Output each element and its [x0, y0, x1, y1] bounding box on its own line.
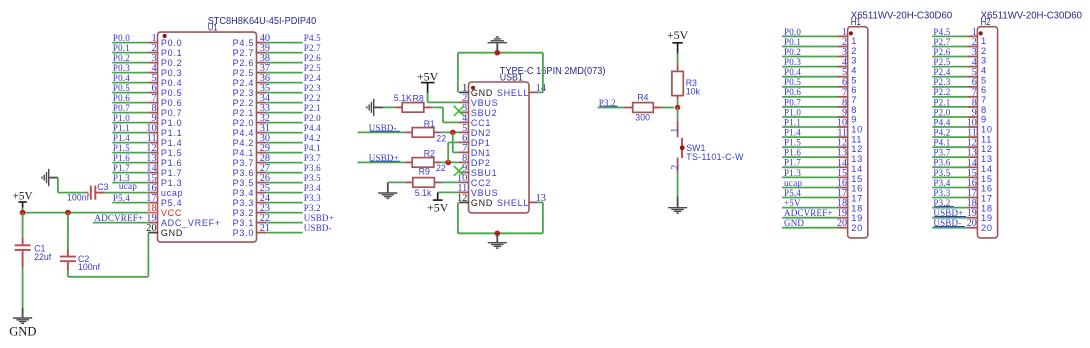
svg-text:DN2: DN2 — [471, 128, 491, 138]
svg-text:P0.5: P0.5 — [161, 88, 183, 98]
svg-text:P2.0: P2.0 — [933, 107, 950, 117]
svg-text:P0.7: P0.7 — [113, 103, 130, 113]
svg-text:P3.4: P3.4 — [933, 178, 950, 188]
svg-text:SBU1: SBU1 — [471, 168, 498, 178]
svg-text:GND: GND — [9, 325, 36, 339]
svg-text:VCC: VCC — [161, 208, 182, 218]
svg-text:ucap: ucap — [784, 178, 802, 188]
svg-text:17: 17 — [851, 193, 863, 203]
svg-text:P0.1: P0.1 — [161, 48, 183, 58]
svg-text:P2.3: P2.3 — [933, 77, 950, 87]
svg-text:P1.5: P1.5 — [113, 143, 130, 153]
svg-text:14: 14 — [981, 164, 993, 174]
svg-text:P0.5: P0.5 — [113, 83, 130, 93]
svg-text:X6511WV-20H-C30D60: X6511WV-20H-C30D60 — [981, 11, 1083, 22]
svg-text:P3.3: P3.3 — [233, 198, 255, 208]
svg-text:P1.5: P1.5 — [784, 138, 801, 148]
svg-text:2: 2 — [851, 46, 857, 56]
svg-text:R4: R4 — [637, 93, 648, 103]
svg-text:12: 12 — [457, 193, 467, 204]
svg-text:P2.1: P2.1 — [304, 103, 321, 113]
svg-text:ucap: ucap — [119, 181, 137, 191]
svg-text:P0.7: P0.7 — [161, 108, 183, 118]
svg-text:3: 3 — [981, 56, 987, 66]
svg-text:P1.4: P1.4 — [161, 138, 183, 148]
svg-text:R1: R1 — [424, 119, 435, 129]
svg-text:9: 9 — [851, 115, 857, 125]
svg-text:P1.3: P1.3 — [161, 178, 183, 188]
svg-text:GND: GND — [161, 228, 183, 238]
svg-text:GND: GND — [471, 88, 493, 98]
svg-text:P0.3: P0.3 — [113, 63, 130, 73]
svg-text:6: 6 — [981, 85, 987, 95]
svg-text:DP2: DP2 — [471, 158, 491, 168]
svg-text:P1.6: P1.6 — [113, 153, 130, 163]
svg-text:ADCVREF+: ADCVREF+ — [95, 213, 144, 223]
svg-text:12: 12 — [851, 144, 863, 154]
svg-text:GND: GND — [784, 218, 804, 228]
svg-text:SHELL: SHELL — [497, 88, 529, 98]
svg-text:USBD+: USBD+ — [304, 213, 334, 223]
svg-text:P1.0: P1.0 — [113, 113, 130, 123]
svg-text:ADCVREF+: ADCVREF+ — [784, 208, 833, 218]
svg-text:16: 16 — [981, 184, 993, 194]
svg-text:DN1: DN1 — [471, 148, 491, 158]
svg-text:P2.6: P2.6 — [933, 47, 950, 57]
svg-text:P1.6: P1.6 — [784, 148, 801, 158]
svg-text:P2.0: P2.0 — [304, 113, 321, 123]
svg-text:4: 4 — [851, 66, 857, 76]
svg-text:P0.6: P0.6 — [161, 98, 183, 108]
svg-text:P4.1: P4.1 — [933, 138, 950, 148]
svg-text:19: 19 — [981, 213, 993, 223]
svg-text:CC1: CC1 — [471, 118, 491, 128]
svg-text:100nf: 100nf — [78, 262, 101, 272]
svg-text:P0.5: P0.5 — [784, 77, 801, 87]
svg-text:P3.1: P3.1 — [233, 218, 255, 228]
svg-text:P0.3: P0.3 — [784, 57, 801, 67]
svg-text:20: 20 — [146, 223, 156, 234]
svg-text:22: 22 — [436, 163, 446, 173]
svg-text:P5.4: P5.4 — [784, 188, 801, 198]
svg-text:R2: R2 — [424, 148, 435, 158]
svg-text:P3.6: P3.6 — [933, 158, 950, 168]
svg-text:5: 5 — [851, 75, 857, 85]
svg-text:P1.4: P1.4 — [113, 133, 130, 143]
svg-text:16: 16 — [851, 184, 863, 194]
svg-text:P1.7: P1.7 — [161, 168, 183, 178]
svg-text:P2.2: P2.2 — [304, 93, 321, 103]
svg-text:P2.5: P2.5 — [233, 68, 255, 78]
svg-text:P2.5: P2.5 — [933, 57, 950, 67]
svg-text:P3.2: P3.2 — [304, 203, 321, 213]
svg-text:14: 14 — [851, 164, 863, 174]
svg-text:P2.1: P2.1 — [233, 108, 255, 118]
svg-text:GND: GND — [471, 198, 493, 208]
svg-text:P2.7: P2.7 — [933, 37, 950, 47]
svg-text:P0.4: P0.4 — [784, 67, 801, 77]
svg-text:P4.1: P4.1 — [233, 148, 255, 158]
svg-text:P2.6: P2.6 — [304, 53, 321, 63]
svg-text:+5V: +5V — [427, 200, 449, 214]
svg-text:P3.0: P3.0 — [233, 228, 255, 238]
svg-text:P4.4: P4.4 — [233, 128, 255, 138]
svg-text:H2: H2 — [981, 17, 991, 28]
svg-text:P3.7: P3.7 — [933, 148, 950, 158]
svg-text:VBUS: VBUS — [471, 98, 499, 108]
svg-text:P0.1: P0.1 — [784, 37, 801, 47]
svg-text:P3.5: P3.5 — [933, 168, 950, 178]
svg-text:10: 10 — [981, 125, 993, 135]
svg-text:8: 8 — [981, 105, 987, 115]
svg-text:17: 17 — [981, 193, 993, 203]
svg-text:6: 6 — [851, 85, 857, 95]
svg-text:10k: 10k — [686, 86, 701, 96]
svg-text:P1.6: P1.6 — [161, 158, 183, 168]
svg-text:P4.5: P4.5 — [933, 27, 950, 37]
svg-text:P2.2: P2.2 — [233, 98, 255, 108]
svg-text:22: 22 — [436, 133, 446, 143]
svg-text:1: 1 — [851, 36, 857, 46]
svg-text:U1: U1 — [208, 23, 218, 34]
svg-text:+5V: +5V — [784, 198, 801, 208]
svg-text:P0.2: P0.2 — [161, 58, 183, 68]
svg-text:P2.7: P2.7 — [304, 43, 321, 53]
svg-text:8: 8 — [851, 105, 857, 115]
svg-text:+5V: +5V — [13, 191, 33, 203]
svg-text:P4.5: P4.5 — [304, 33, 321, 43]
svg-text:P1.5: P1.5 — [161, 148, 183, 158]
svg-text:X6511WV-20H-C30D60: X6511WV-20H-C30D60 — [851, 11, 953, 22]
svg-text:11: 11 — [851, 134, 862, 144]
svg-text:P5.4: P5.4 — [161, 198, 183, 208]
svg-text:300: 300 — [635, 112, 650, 122]
svg-text:P2.1: P2.1 — [933, 97, 950, 107]
svg-text:P1.1: P1.1 — [784, 117, 801, 127]
svg-text:P0.6: P0.6 — [113, 93, 130, 103]
svg-text:P3.3: P3.3 — [304, 193, 321, 203]
svg-text:18: 18 — [981, 203, 993, 213]
svg-text:22uf: 22uf — [34, 252, 52, 262]
svg-text:P0.0: P0.0 — [161, 38, 183, 48]
svg-text:20: 20 — [851, 223, 863, 233]
svg-text:5: 5 — [981, 75, 987, 85]
svg-text:P0.3: P0.3 — [161, 68, 183, 78]
svg-text:P1.0: P1.0 — [161, 118, 183, 128]
svg-text:18: 18 — [851, 203, 863, 213]
svg-text:+5V: +5V — [417, 69, 439, 83]
svg-text:P4.1: P4.1 — [304, 143, 321, 153]
svg-text:P3.2: P3.2 — [233, 208, 255, 218]
svg-text:P2.6: P2.6 — [233, 58, 255, 68]
svg-text:2: 2 — [981, 46, 987, 56]
svg-text:P4.4: P4.4 — [304, 123, 321, 133]
svg-text:5.1K: 5.1K — [394, 93, 412, 103]
svg-text:P0.7: P0.7 — [784, 97, 801, 107]
svg-text:+5V: +5V — [667, 28, 689, 42]
svg-text:P2.4: P2.4 — [304, 73, 321, 83]
svg-text:P2.5: P2.5 — [304, 63, 321, 73]
svg-text:P0.0: P0.0 — [784, 27, 801, 37]
svg-text:P3.4: P3.4 — [304, 183, 321, 193]
svg-text:P4.5: P4.5 — [233, 38, 255, 48]
svg-text:P1.4: P1.4 — [784, 128, 801, 138]
svg-text:P3.6: P3.6 — [233, 168, 255, 178]
svg-text:100nf: 100nf — [67, 192, 90, 202]
svg-text:VBUS: VBUS — [471, 188, 499, 198]
svg-text:P0.2: P0.2 — [113, 53, 130, 63]
svg-text:12: 12 — [981, 144, 993, 154]
svg-text:P2.4: P2.4 — [933, 67, 950, 77]
svg-text:P4.4: P4.4 — [933, 117, 950, 127]
svg-text:P5.4: P5.4 — [113, 193, 130, 203]
svg-text:10: 10 — [851, 125, 863, 135]
svg-text:P3.7: P3.7 — [304, 153, 321, 163]
svg-text:H1: H1 — [851, 17, 861, 28]
svg-text:P0.0: P0.0 — [113, 33, 130, 43]
svg-text:P3.6: P3.6 — [304, 163, 321, 173]
svg-text:P1.1: P1.1 — [113, 123, 130, 133]
svg-text:9: 9 — [981, 115, 987, 125]
svg-text:SBU2: SBU2 — [471, 108, 498, 118]
svg-text:P0.1: P0.1 — [113, 43, 130, 53]
svg-text:P2.4: P2.4 — [233, 78, 255, 88]
svg-text:P1.7: P1.7 — [113, 163, 130, 173]
svg-text:15: 15 — [851, 174, 863, 184]
svg-text:ucap: ucap — [161, 188, 184, 198]
svg-text:C3: C3 — [97, 182, 108, 192]
svg-text:ADC_VREF+: ADC_VREF+ — [161, 218, 221, 228]
svg-text:7: 7 — [981, 95, 987, 105]
svg-text:R9: R9 — [419, 167, 430, 177]
svg-text:P3.3: P3.3 — [933, 188, 950, 198]
svg-text:P2.3: P2.3 — [233, 88, 255, 98]
svg-text:P0.2: P0.2 — [784, 47, 801, 57]
svg-text:1: 1 — [670, 128, 681, 133]
svg-text:7: 7 — [851, 95, 857, 105]
svg-text:P3.5: P3.5 — [233, 178, 255, 188]
svg-text:P3.4: P3.4 — [233, 188, 255, 198]
svg-text:P2.2: P2.2 — [933, 87, 950, 97]
svg-text:SHELL: SHELL — [497, 198, 529, 208]
svg-text:P2.3: P2.3 — [304, 83, 321, 93]
svg-text:20: 20 — [967, 218, 977, 229]
svg-text:P1.3: P1.3 — [784, 168, 801, 178]
svg-text:DP1: DP1 — [471, 138, 491, 148]
svg-text:5.1k: 5.1k — [415, 188, 432, 198]
svg-text:20: 20 — [837, 218, 847, 229]
svg-text:USB1: USB1 — [500, 72, 523, 83]
svg-text:20: 20 — [981, 223, 993, 233]
svg-text:13: 13 — [851, 154, 863, 164]
svg-text:P3.7: P3.7 — [233, 158, 255, 168]
svg-text:P4.2: P4.2 — [933, 128, 950, 138]
svg-text:P1.7: P1.7 — [784, 158, 801, 168]
svg-text:P1.0: P1.0 — [784, 107, 801, 117]
svg-text:3: 3 — [851, 56, 857, 66]
svg-text:P0.4: P0.4 — [161, 78, 183, 88]
svg-text:13: 13 — [981, 154, 993, 164]
svg-text:P1.1: P1.1 — [161, 128, 183, 138]
svg-text:19: 19 — [851, 213, 863, 223]
svg-text:P3.5: P3.5 — [304, 173, 321, 183]
svg-text:15: 15 — [981, 174, 993, 184]
svg-text:CC2: CC2 — [471, 178, 491, 188]
svg-text:4: 4 — [981, 66, 987, 76]
svg-text:P0.6: P0.6 — [784, 87, 801, 97]
svg-text:P0.4: P0.4 — [113, 73, 130, 83]
svg-text:USBD-: USBD- — [304, 223, 332, 233]
svg-text:STC8H8K64U-45I-PDIP40: STC8H8K64U-45I-PDIP40 — [208, 16, 317, 27]
svg-text:2: 2 — [670, 165, 681, 170]
svg-text:R8: R8 — [413, 94, 424, 104]
svg-text:P4.2: P4.2 — [304, 133, 321, 143]
svg-text:11: 11 — [981, 134, 992, 144]
svg-text:TS-1101-C-W: TS-1101-C-W — [686, 152, 744, 162]
svg-text:P4.2: P4.2 — [233, 138, 255, 148]
svg-text:1: 1 — [981, 36, 987, 46]
svg-text:P2.7: P2.7 — [233, 48, 255, 58]
svg-text:P2.0: P2.0 — [233, 118, 255, 128]
